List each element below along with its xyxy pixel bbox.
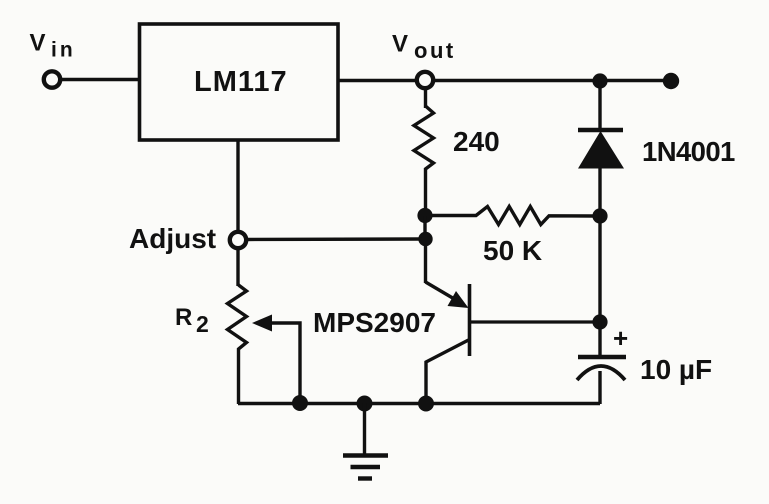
svg-text:V: V	[30, 30, 46, 57]
resistor R3 50 K (horizontal zigzag)	[432, 207, 594, 225]
ground stem	[363, 403, 366, 455]
wiper arrow line of R2	[262, 323, 300, 404]
ground bar 2	[351, 465, 381, 469]
diode D1 1N4001 triangle	[578, 131, 624, 169]
svg-text:+: +	[613, 323, 628, 353]
wire cap node to plate	[598, 322, 601, 356]
node junction adjust wire / emitter	[418, 232, 432, 246]
resistor R1 240 (vertical zigzag)	[414, 106, 434, 216]
svg-text:LM117: LM117	[194, 66, 288, 98]
svg-text:240: 240	[453, 126, 500, 157]
resistor R2 (vertical zigzag)	[228, 285, 247, 404]
node junction wiper / bottom rail	[292, 395, 308, 411]
wire top node down to diode	[598, 81, 601, 130]
capacitor C1 top plate	[578, 355, 626, 360]
svg-text:MPS2907: MPS2907	[313, 307, 436, 338]
wire Adjust circle to emitter junction	[246, 237, 422, 241]
svg-text:out: out	[414, 38, 456, 63]
transistor Q1 emitter diagonal	[426, 282, 463, 304]
wire adjust stem from box	[236, 140, 239, 233]
capacitor C1 curved plate	[577, 366, 625, 380]
node junction ground / bottom rail	[357, 396, 373, 412]
svg-text:Adjust: Adjust	[129, 223, 216, 254]
node junction 240 / 50K	[417, 208, 432, 223]
node Vin terminal (open circle)	[44, 71, 60, 87]
node Vout terminal (open circle)	[417, 72, 433, 88]
svg-text:1N4001: 1N4001	[642, 136, 735, 167]
wire Adjust circle down to R2	[236, 248, 239, 286]
transistor Q1 emitter arrowhead	[448, 291, 469, 308]
diode D1 1N4001 cathode bar	[578, 128, 623, 133]
svg-text:10 µF: 10 µF	[640, 354, 712, 385]
wire Vin input lead	[59, 78, 140, 81]
node junction top wire / diode branch	[592, 73, 607, 88]
wire diode to 50K junction	[598, 168, 601, 216]
svg-text:V: V	[392, 31, 408, 58]
wiper arrowhead	[252, 315, 272, 332]
svg-text:2: 2	[196, 311, 209, 337]
transistor Q1 collector diagonal	[426, 340, 469, 404]
wire bottom rail	[238, 402, 600, 405]
wire Vout circle down to resistor 240	[424, 88, 427, 108]
wire 50K junction down to base/cap junction	[598, 216, 601, 322]
node output terminal dot	[663, 73, 679, 89]
node junction base / capacitor	[592, 314, 607, 329]
node Adjust terminal (open circle)	[230, 232, 246, 248]
wire between junctions	[423, 216, 426, 240]
wire Vout output lead (box to output terminal)	[338, 79, 666, 82]
ground bar 3	[358, 476, 372, 480]
transistor Q1 base bar	[468, 284, 472, 356]
node junction collector / bottom rail	[418, 396, 434, 412]
wire cap bottom lead	[598, 371, 601, 404]
ground bar 1	[343, 453, 388, 458]
transistor Q1 MPS2907 emitter lead	[424, 243, 427, 283]
node junction 50K / diode branch	[592, 208, 607, 223]
svg-text:50 K: 50 K	[483, 235, 542, 266]
svg-text:in: in	[51, 39, 76, 62]
svg-text:R: R	[175, 304, 192, 331]
regulator U1 LM117 box	[140, 24, 339, 140]
transistor Q1 base lead to capacitor node	[470, 320, 601, 323]
